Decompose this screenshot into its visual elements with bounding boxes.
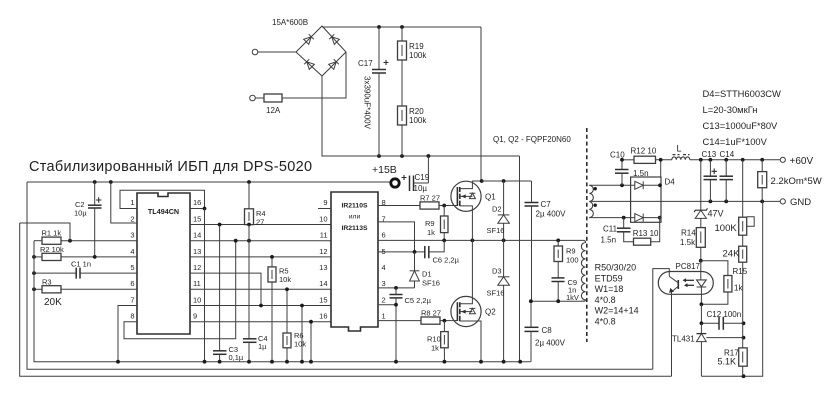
capacitor C3 0.1u bbox=[213, 225, 244, 363]
svg-text:C10: C10 bbox=[610, 151, 625, 160]
node bbox=[247, 180, 251, 184]
diode D4a bbox=[635, 181, 661, 189]
svg-text:16: 16 bbox=[319, 312, 327, 321]
node bbox=[742, 374, 746, 378]
node bbox=[622, 216, 626, 220]
svg-text:24K: 24K bbox=[723, 249, 741, 260]
svg-text:D3: D3 bbox=[492, 267, 502, 276]
svg-text:R9: R9 bbox=[425, 219, 435, 228]
node bbox=[760, 200, 764, 204]
resistor R5 10k bbox=[268, 257, 291, 362]
inductor L bbox=[672, 144, 780, 160]
node bbox=[218, 223, 222, 227]
node bbox=[502, 179, 506, 183]
svg-text:3: 3 bbox=[130, 231, 134, 240]
diode D4b bbox=[635, 214, 661, 222]
svg-text:11: 11 bbox=[320, 231, 328, 240]
svg-text:2: 2 bbox=[130, 214, 134, 223]
wire GND center tap rail bbox=[589, 200, 780, 202]
node bbox=[480, 179, 484, 183]
node bbox=[700, 302, 704, 306]
pin numbers TL494 left bbox=[130, 198, 134, 320]
node bbox=[259, 304, 263, 308]
wire drain node to C7 bbox=[482, 180, 532, 182]
svg-text:L: L bbox=[677, 144, 682, 154]
svg-text:4: 4 bbox=[382, 263, 386, 272]
node bbox=[742, 336, 746, 340]
svg-text:1.5n: 1.5n bbox=[601, 236, 617, 245]
svg-text:5.1K: 5.1K bbox=[718, 357, 737, 367]
node bbox=[709, 158, 713, 162]
svg-text:10k: 10k bbox=[279, 275, 291, 284]
wire bus TL494p9 to IR2110p16 bbox=[190, 321, 331, 323]
svg-text:1: 1 bbox=[130, 198, 134, 207]
transistor Q1 bbox=[451, 181, 496, 240]
potentiometer 100K bbox=[715, 160, 755, 235]
pin numbers IR2110 right bbox=[382, 198, 386, 320]
node bbox=[377, 154, 381, 158]
svg-text:C1 1n: C1 1n bbox=[71, 260, 91, 269]
svg-text:C5 2,2µ: C5 2,2µ bbox=[405, 296, 432, 305]
wire bottom right rail bbox=[701, 201, 762, 376]
svg-text:Стабилизированный ИБП для DPS-: Стабилизированный ИБП для DPS-5020 bbox=[29, 159, 312, 175]
node bbox=[442, 204, 446, 208]
svg-text:W2=14+14: W2=14+14 bbox=[595, 306, 639, 316]
svg-text:+15В: +15В bbox=[372, 164, 397, 176]
resistor R9 100 (snubber) bbox=[554, 240, 579, 278]
capacitor C10 1.5n bbox=[610, 151, 649, 186]
node bbox=[247, 239, 251, 243]
capacitor C6 2.2u bbox=[378, 240, 460, 264]
node bbox=[93, 255, 97, 259]
wire R1 feedback loop bbox=[20, 223, 70, 241]
svg-text:C13: C13 bbox=[702, 150, 717, 159]
wire VS midpoint rail (pin6) bbox=[378, 239, 584, 241]
capacitor C17 3x390uF*400V bbox=[358, 27, 389, 156]
dual diode D4 box bbox=[631, 177, 676, 222]
svg-text:7: 7 bbox=[130, 295, 134, 304]
wire bus TL494p14 to IR2110p11 bbox=[190, 240, 331, 242]
node bbox=[234, 239, 238, 243]
svg-text:12: 12 bbox=[193, 263, 201, 272]
svg-text:или: или bbox=[349, 214, 361, 221]
capacitor C8 2u 400V bbox=[525, 301, 566, 362]
svg-text:27: 27 bbox=[256, 218, 264, 227]
svg-text:R3: R3 bbox=[42, 277, 52, 286]
capacitor C5 2.2u bbox=[390, 288, 432, 362]
resistor R19 100k bbox=[398, 27, 428, 60]
svg-text:2: 2 bbox=[382, 295, 386, 304]
svg-text:2µ 400V: 2µ 400V bbox=[535, 339, 566, 348]
svg-text:L=20-30мкГн: L=20-30мкГн bbox=[703, 104, 758, 115]
node bbox=[700, 321, 704, 325]
svg-text:TL494CN: TL494CN bbox=[148, 207, 179, 216]
svg-text:Q1, Q2 - FQPF20N60: Q1, Q2 - FQPF20N60 bbox=[493, 135, 571, 144]
svg-text:1k: 1k bbox=[734, 284, 743, 293]
node bbox=[699, 259, 703, 263]
wire IR2110p3 stub bbox=[378, 287, 415, 289]
svg-text:2.2kOm*5W: 2.2kOm*5W bbox=[771, 176, 822, 187]
svg-text:SF16: SF16 bbox=[487, 289, 505, 298]
terminal +60V bbox=[780, 156, 813, 167]
node bbox=[377, 25, 381, 29]
svg-text:1kV: 1kV bbox=[566, 293, 579, 302]
svg-text:12: 12 bbox=[319, 247, 327, 256]
node bbox=[300, 304, 304, 308]
svg-text:1: 1 bbox=[382, 312, 386, 321]
svg-text:ETD59: ETD59 bbox=[595, 273, 623, 283]
svg-text:IR2110S: IR2110S bbox=[341, 203, 368, 210]
capacitor C9 1n 1kV bbox=[552, 278, 579, 302]
node bbox=[309, 360, 313, 364]
node bbox=[502, 360, 506, 364]
svg-text:R8 27: R8 27 bbox=[421, 309, 441, 318]
wire D4 cathode riser bbox=[660, 160, 662, 177]
svg-text:R13 10: R13 10 bbox=[633, 229, 659, 238]
wire left mid loop bbox=[27, 182, 653, 369]
node bbox=[709, 200, 713, 204]
svg-text:C13=1000uF*80V: C13=1000uF*80V bbox=[703, 120, 779, 131]
svg-text:10k: 10k bbox=[294, 340, 306, 349]
node bbox=[471, 239, 475, 243]
node bbox=[32, 287, 36, 291]
svg-text:100: 100 bbox=[566, 256, 579, 265]
node bbox=[443, 319, 447, 323]
svg-text:Q2: Q2 bbox=[485, 308, 496, 317]
svg-text:11: 11 bbox=[193, 279, 201, 288]
diode D3 SF16 bbox=[487, 240, 510, 361]
wire bridge bottom drop bbox=[322, 76, 520, 156]
wire IR2110p16 ground drop bbox=[310, 322, 312, 362]
svg-text:C7: C7 bbox=[541, 200, 552, 209]
node bbox=[394, 303, 398, 307]
svg-text:10µ: 10µ bbox=[414, 184, 428, 193]
svg-text:IR2113S: IR2113S bbox=[341, 225, 368, 232]
node bbox=[443, 360, 447, 364]
svg-text:13: 13 bbox=[319, 263, 327, 272]
resistor R17 5.1K bbox=[718, 348, 748, 376]
node bbox=[300, 360, 304, 364]
capacitor C11 1.5n bbox=[601, 218, 634, 245]
TL431 bbox=[672, 323, 744, 376]
node bbox=[760, 158, 764, 162]
svg-text:100k: 100k bbox=[409, 51, 427, 60]
isolation dashed line bbox=[586, 128, 588, 342]
node bbox=[724, 200, 728, 204]
resistor R4 27 bbox=[245, 182, 266, 227]
node bbox=[658, 216, 662, 220]
wire left outer loop bbox=[20, 223, 672, 376]
node bbox=[658, 183, 662, 187]
svg-text:Q1: Q1 bbox=[485, 193, 496, 202]
svg-text:C11: C11 bbox=[603, 225, 618, 234]
node bbox=[741, 158, 745, 162]
wire IR2110p7 drop bbox=[378, 222, 415, 252]
resistor R7 27 bbox=[378, 194, 451, 210]
svg-text:12A: 12A bbox=[266, 106, 281, 115]
node bbox=[394, 360, 398, 364]
node bbox=[93, 180, 97, 184]
node bbox=[285, 360, 289, 364]
wire pin8 loop bbox=[124, 241, 236, 339]
svg-text:10: 10 bbox=[193, 295, 201, 304]
svg-text:2µ 400V: 2µ 400V bbox=[536, 210, 567, 219]
wire bbox=[282, 52, 346, 98]
node bbox=[502, 239, 506, 243]
transformer T1 secondary winding bbox=[589, 185, 593, 217]
svg-text:47V: 47V bbox=[708, 209, 724, 219]
svg-text:C6 2,2µ: C6 2,2µ bbox=[433, 256, 460, 265]
node bbox=[620, 158, 624, 162]
capacitor C7 2u 400V bbox=[525, 181, 567, 301]
svg-text:100k: 100k bbox=[409, 116, 427, 125]
wire secondary bottom row bbox=[589, 217, 635, 219]
svg-text:C17: C17 bbox=[358, 59, 373, 68]
diode D2 SF16 bbox=[487, 181, 510, 240]
resistor R15 1k bbox=[701, 261, 748, 305]
transformer note bbox=[595, 263, 639, 327]
svg-text:R9: R9 bbox=[566, 247, 576, 256]
IC U2 IR2110S bbox=[331, 192, 378, 331]
terminal +15B bbox=[372, 164, 399, 187]
wire +15V distribution line bbox=[27, 181, 390, 183]
svg-text:15: 15 bbox=[193, 214, 201, 223]
node bbox=[270, 360, 274, 364]
resistor R12 10 bbox=[622, 147, 672, 164]
svg-text:9: 9 bbox=[323, 198, 327, 207]
node bbox=[556, 299, 560, 303]
svg-text:3: 3 bbox=[382, 279, 386, 288]
node bbox=[400, 154, 404, 158]
node bbox=[742, 321, 746, 325]
svg-text:SF16: SF16 bbox=[487, 226, 505, 235]
svg-text:D4: D4 bbox=[665, 178, 676, 187]
wire bus TL494p13 to IR2110p12 bbox=[190, 256, 331, 258]
node bbox=[442, 239, 446, 243]
transistor Q2 bbox=[451, 240, 496, 361]
svg-text:10: 10 bbox=[319, 214, 327, 223]
wire bbox=[258, 51, 296, 53]
svg-text:4*0.8: 4*0.8 bbox=[595, 317, 616, 327]
wire opto collector out bbox=[653, 269, 670, 370]
node bbox=[620, 183, 624, 187]
wire left inner vertical bbox=[34, 241, 531, 362]
node bbox=[556, 239, 560, 243]
capacitor C19 10u bbox=[402, 156, 430, 193]
wire C7C8 midpoint rail bbox=[531, 300, 581, 302]
pin numbers TL494 right bbox=[193, 198, 201, 320]
capacitor C1 1n bbox=[34, 260, 137, 279]
svg-text:5: 5 bbox=[130, 263, 134, 272]
wire pin2 to +15 line bbox=[111, 182, 137, 223]
terminal GND bbox=[780, 197, 811, 208]
svg-text:C14: C14 bbox=[720, 150, 735, 159]
svg-text:R15: R15 bbox=[733, 267, 748, 276]
node bbox=[116, 360, 120, 364]
zener VD 47V bbox=[694, 160, 723, 228]
wire Q1 drain drop bbox=[480, 27, 482, 181]
capacitor C14 bbox=[720, 150, 735, 201]
svg-text:R20: R20 bbox=[409, 107, 424, 116]
wire bbox=[255, 97, 264, 99]
svg-text:R19: R19 bbox=[409, 42, 424, 51]
info text block bbox=[703, 88, 782, 147]
wire pin16 ground drop bbox=[204, 209, 206, 362]
node bbox=[529, 299, 533, 303]
IC U1 TL494CN bbox=[137, 193, 190, 334]
svg-text:8: 8 bbox=[130, 312, 134, 321]
wire bus TL494p15 to IR2110p10 bbox=[190, 224, 331, 226]
svg-text:TL431: TL431 bbox=[672, 335, 695, 344]
svg-text:1.5n: 1.5n bbox=[633, 169, 649, 178]
node bbox=[109, 180, 113, 184]
svg-text:R50/30/20: R50/30/20 bbox=[595, 263, 637, 273]
wire IR2110p15 ground drop bbox=[301, 306, 303, 362]
svg-text:9: 9 bbox=[193, 312, 197, 321]
node bbox=[285, 287, 289, 291]
wire DC- vertical bbox=[519, 156, 521, 362]
resistor 24K bbox=[723, 235, 747, 348]
capacitor C13 bbox=[702, 150, 718, 201]
node bbox=[518, 360, 522, 364]
svg-text:1µ: 1µ bbox=[258, 342, 267, 351]
svg-text:15: 15 bbox=[319, 295, 327, 304]
svg-text:GND: GND bbox=[790, 197, 811, 208]
node bbox=[32, 271, 36, 275]
resistor R3 20K bbox=[34, 277, 137, 308]
diode D1 SF16 bbox=[410, 252, 440, 288]
node bbox=[270, 255, 274, 259]
optocoupler PC817 bbox=[658, 261, 713, 305]
wire opto emitter out bbox=[671, 292, 673, 376]
wire bus TL494p10 to IR2110p15 bbox=[190, 305, 331, 307]
node bbox=[247, 360, 251, 364]
svg-text:W1=18: W1=18 bbox=[595, 284, 624, 294]
node bbox=[32, 255, 36, 259]
wire bus TL494p11 to IR2110p14 bbox=[190, 288, 331, 290]
svg-text:14: 14 bbox=[319, 279, 327, 288]
resistor R9 1k (gate) bbox=[425, 206, 448, 241]
svg-text:6: 6 bbox=[382, 231, 386, 240]
svg-text:SF16: SF16 bbox=[422, 279, 440, 288]
wire pin16 stub bbox=[190, 208, 205, 210]
svg-text:D2: D2 bbox=[492, 205, 502, 214]
wire IR2110p9 stub bbox=[318, 208, 331, 210]
node bbox=[413, 250, 417, 254]
svg-text:16: 16 bbox=[193, 198, 201, 207]
node bbox=[724, 158, 728, 162]
wire secondary top row bbox=[589, 184, 635, 186]
transformer T1 primary winding bbox=[581, 240, 586, 301]
node bbox=[427, 154, 431, 158]
capacitor C2 10u bbox=[74, 182, 102, 257]
svg-text:R12 10: R12 10 bbox=[631, 147, 657, 156]
node bbox=[203, 360, 207, 364]
polarity dot bbox=[594, 204, 597, 207]
svg-text:C14=1uF*100V: C14=1uF*100V bbox=[703, 136, 768, 147]
svg-text:C19: C19 bbox=[415, 173, 430, 182]
pin numbers IR2110 left bbox=[319, 198, 327, 320]
svg-text:R1 1k: R1 1k bbox=[42, 229, 62, 238]
svg-text:0,1µ: 0,1µ bbox=[229, 353, 244, 362]
resistor R8 27 bbox=[378, 309, 451, 325]
resistor R10 1k bbox=[427, 321, 448, 362]
svg-text:100K: 100K bbox=[715, 223, 738, 234]
svg-text:3x390uF*400V: 3x390uF*400V bbox=[363, 76, 372, 130]
svg-text:D1: D1 bbox=[422, 270, 432, 279]
svg-text:1k: 1k bbox=[427, 228, 435, 237]
node bbox=[309, 320, 313, 324]
svg-text:PC817: PC817 bbox=[676, 262, 701, 271]
input terminal J1 bbox=[252, 49, 258, 55]
node bbox=[203, 207, 207, 211]
svg-text:R14: R14 bbox=[681, 229, 696, 238]
resistor 2.2kOm 5W bbox=[758, 160, 822, 202]
svg-text:1k: 1k bbox=[431, 344, 439, 353]
wire pin7 ground bbox=[118, 306, 137, 362]
svg-text:D4=STTH6003CW: D4=STTH6003CW bbox=[703, 88, 782, 99]
node bbox=[218, 360, 222, 364]
fuse 12A bbox=[264, 94, 282, 115]
svg-text:6: 6 bbox=[130, 279, 134, 288]
wire pin1 loop over IC bbox=[120, 190, 205, 208]
capacitor C4 1u bbox=[243, 225, 268, 362]
resistor R20 100k bbox=[398, 106, 428, 156]
resistor R1 1k bbox=[34, 229, 137, 245]
resistor R13 10 bbox=[633, 218, 660, 246]
node bbox=[479, 360, 483, 364]
resistor R2 10k bbox=[34, 245, 137, 260]
svg-text:+60V: +60V bbox=[790, 156, 814, 167]
svg-text:C8: C8 bbox=[542, 326, 553, 335]
node bbox=[247, 223, 251, 227]
capacitor C12 100n bbox=[701, 304, 743, 330]
resistor R6 10k bbox=[283, 289, 306, 361]
bridge rectifier 15A*600B bbox=[272, 18, 346, 76]
svg-text:4: 4 bbox=[130, 247, 134, 256]
svg-text:15A*600B: 15A*600B bbox=[272, 18, 308, 27]
wire DC+ top rail bbox=[322, 26, 481, 28]
wire IR2110p2 stub bbox=[378, 304, 396, 306]
resistor R14 1.5k bbox=[680, 228, 705, 261]
node bbox=[699, 158, 703, 162]
node bbox=[659, 158, 663, 162]
polarity dot bbox=[594, 187, 597, 190]
svg-text:4*0.8: 4*0.8 bbox=[595, 295, 616, 305]
svg-text:5: 5 bbox=[382, 247, 386, 256]
wire bbox=[401, 60, 403, 106]
svg-text:20K: 20K bbox=[44, 297, 62, 308]
svg-text:R10: R10 bbox=[427, 335, 441, 344]
node bbox=[394, 286, 398, 290]
node bbox=[68, 239, 72, 243]
svg-text:14: 14 bbox=[193, 231, 201, 240]
svg-text:R7 27: R7 27 bbox=[420, 194, 440, 203]
node bbox=[400, 25, 404, 29]
svg-text:10µ: 10µ bbox=[74, 209, 87, 218]
svg-text:1.5k: 1.5k bbox=[680, 238, 696, 247]
input terminal J2 bbox=[250, 95, 256, 101]
svg-text:13: 13 bbox=[193, 247, 201, 256]
wire TL494p12 jog bbox=[190, 273, 261, 305]
